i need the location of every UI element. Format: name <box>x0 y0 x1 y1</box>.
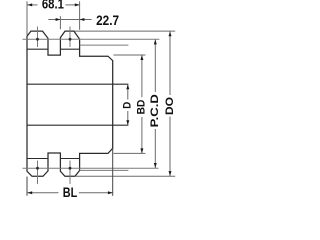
arrow 22.7 left <box>56 18 61 21</box>
pitch line bottom <box>23 167 159 169</box>
dimension 22.7 left tail <box>48 19 60 21</box>
dimension BD line lower <box>141 117 143 153</box>
DO extension line top <box>75 30 176 32</box>
root line bottom tooth 2 <box>60 158 79 160</box>
root line bottom tooth 1 <box>27 158 49 160</box>
pitch line top <box>23 38 160 40</box>
dimension DO line lower <box>169 117 171 177</box>
arrow DO up <box>169 32 172 37</box>
tooth 2 bottom centerline <box>69 161 71 185</box>
arrow PCD down <box>154 163 157 168</box>
arrow BL right <box>108 191 113 194</box>
bore bottom line <box>27 124 128 126</box>
arrow BD up <box>140 55 143 60</box>
BD extension line bottom <box>113 152 145 154</box>
extension line x=27 top <box>26 1 28 35</box>
dimension 68.1 line right <box>66 4 80 6</box>
extension line x=80 top <box>79 1 81 30</box>
svg-text:BL: BL <box>63 184 78 200</box>
BL extension line left <box>26 177 28 196</box>
svg-text:D: D <box>122 102 134 109</box>
tooth 2 top center dot <box>69 38 72 41</box>
bore top line <box>27 83 128 85</box>
arrow 68.1 right <box>75 3 80 6</box>
hub reference line bottom <box>80 169 129 171</box>
arrow DO down <box>169 171 172 176</box>
extension line tooth2 left edge <box>59 16 61 29</box>
dimension BL line left <box>27 192 59 194</box>
root line top tooth 1 <box>27 48 49 50</box>
arrow 68.1 left <box>27 3 32 6</box>
svg-text:P.C.D: P.C.D <box>149 94 161 127</box>
dimension PCD line upper <box>154 39 156 92</box>
dimension DO line upper <box>169 31 171 95</box>
dimension D line upper <box>127 84 129 99</box>
svg-text:BD: BD <box>135 100 147 115</box>
arrow 22.7 right <box>80 18 85 21</box>
tooth 1 bottom centerline <box>37 161 39 185</box>
tooth 1 top centerline <box>37 27 39 48</box>
arrow D up <box>126 84 129 89</box>
dimension D line lower <box>127 111 129 125</box>
arrow BL left <box>27 191 32 194</box>
svg-text:68.1: 68.1 <box>42 0 64 12</box>
tooth 1 bottom center dot <box>36 167 39 170</box>
BL extension line right <box>112 148 114 196</box>
root line top tooth 2 <box>60 48 79 50</box>
dimension 68.1 line left <box>27 4 37 6</box>
sprocket body outline <box>27 31 113 176</box>
dimension 22.7 right tail <box>80 19 92 21</box>
dimension PCD line lower <box>154 129 156 168</box>
svg-text:22.7: 22.7 <box>96 12 119 28</box>
tooth 2 top centerline <box>69 27 71 48</box>
DO extension line bottom <box>76 175 175 177</box>
dimension 22.7 connecting line <box>60 19 79 21</box>
BD extension line top <box>113 54 145 56</box>
dimension BD line upper <box>141 55 143 97</box>
hub reference line top <box>80 44 129 46</box>
arrow D down <box>126 120 129 125</box>
arrow PCD up <box>154 40 157 45</box>
dimension BL line right <box>79 192 113 194</box>
tooth 1 top center dot <box>36 38 39 41</box>
arrow BD down <box>140 148 143 153</box>
svg-text:DO: DO <box>164 97 176 115</box>
tooth 2 bottom center dot <box>69 167 72 170</box>
